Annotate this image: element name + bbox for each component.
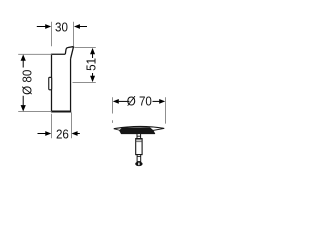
plug stem neck xyxy=(137,134,141,139)
dimension 51 dimension line with arrows xyxy=(90,48,95,82)
svg-text:51: 51 xyxy=(84,58,99,71)
plug stem shaft xyxy=(136,139,142,155)
dimension 51 bottom extension line xyxy=(73,82,96,84)
plug cap top face arc xyxy=(114,126,164,128)
dimension O80 top extension line xyxy=(18,53,51,55)
mounting tab on body left xyxy=(49,77,52,90)
dimension O70 left arrow xyxy=(113,99,130,104)
dimension 30 right arrow xyxy=(74,24,87,29)
plug foot highlight xyxy=(138,163,139,166)
svg-text:Ø 70: Ø 70 xyxy=(127,94,152,109)
dimension 26 right arrow xyxy=(72,131,80,136)
plug foot ball xyxy=(135,162,142,167)
svg-text:30: 30 xyxy=(55,20,68,35)
overflow spout xyxy=(65,47,73,59)
plug stem shaft rung 2 xyxy=(136,141,142,143)
dimension 26 left extension line xyxy=(51,114,53,138)
dimension 30 left arrow xyxy=(37,24,51,29)
svg-text:Ø 80: Ø 80 xyxy=(20,70,35,95)
plug stem lower pin xyxy=(137,155,141,162)
dimension 30 right extension line xyxy=(73,22,75,47)
plug stem shaft rung 1 xyxy=(136,139,142,141)
dimension O70 right extension line xyxy=(165,97,167,123)
plug stem lower pin rung xyxy=(137,155,141,157)
plug cap left rim edge xyxy=(114,129,121,131)
dimension 26 right extension line xyxy=(71,112,73,138)
dimension O80 bottom extension line xyxy=(18,111,51,113)
overflow body bottom edge thick xyxy=(51,111,71,113)
plug stem neck rung xyxy=(137,135,141,137)
dimension O80 dimension line with arrows xyxy=(21,54,26,111)
dimension 26 left arrow xyxy=(38,131,52,136)
dimension 51 top extension line xyxy=(74,47,96,49)
plug cap right rim edge xyxy=(153,128,165,130)
dimension O70 right arrow xyxy=(153,99,166,104)
overflow body outline xyxy=(52,54,71,111)
plug cap underside band xyxy=(120,128,155,134)
dimension 30 left extension line xyxy=(51,22,53,46)
svg-text:26: 26 xyxy=(56,127,69,142)
dimension O70 left extension line xyxy=(112,97,114,113)
